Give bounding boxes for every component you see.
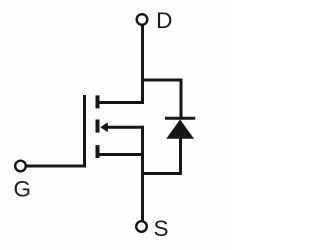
diode D1: anode triangle (filled, pointing up) [166, 119, 194, 138]
diode D1: cathode bar [165, 117, 195, 120]
wire: source net vertical (body junction through source lead junction down to S terminal) [141, 126, 144, 222]
wire: drain vertical from D terminal down to drain lead [141, 25, 144, 104]
wire: diode return horizontal to source net [141, 172, 182, 175]
wire: gate horizontal from G terminal to gate line [26, 165, 86, 168]
MOSFET Q1: drain channel bar [96, 95, 100, 108]
wire: body lead from arrow to source net vertical [107, 126, 144, 129]
terminal S (open circle) [136, 221, 147, 232]
terminal D (open circle) [137, 14, 148, 25]
wire: diode anode vertical down [179, 138, 182, 175]
MOSFET Q1: body arrow (points to channel, N-channel) [100, 122, 108, 132]
MOSFET Q1: source channel bar [96, 145, 100, 158]
svg-text:D: D [156, 8, 172, 33]
terminal G (open circle) [15, 161, 26, 172]
svg-text:S: S [154, 216, 169, 241]
wire: source lead from channel bar to source net vertical [98, 153, 144, 156]
MOSFET Q1: gate electrode line [83, 95, 86, 167]
MOSFET Q1: body channel bar [96, 120, 100, 133]
wire: branch from drain wire to diode cathode (horizontal then down) [141, 80, 181, 118]
wire: drain lead from channel bar to drain vertical [98, 101, 144, 104]
svg-text:G: G [14, 177, 32, 202]
